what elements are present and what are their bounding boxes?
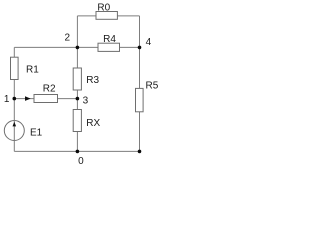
wire row node1-node3 (through R2): [14, 98, 77, 100]
node 3: [76, 97, 80, 101]
wire middle rail: [76, 16, 78, 152]
node 1: [13, 97, 17, 101]
wire top (node2 column to right rail, through R0): [77, 15, 139, 17]
resistor R0: [96, 12, 117, 20]
resistor R1: [11, 57, 19, 79]
svg-text:R1: R1: [26, 64, 39, 75]
svg-text:0: 0: [78, 156, 84, 167]
node 2: [76, 46, 80, 50]
wire row node2-node4 (left rail to right rail, through R4): [14, 46, 139, 48]
svg-text:R2: R2: [43, 84, 56, 95]
node 4: [138, 46, 142, 50]
arrow on wire node1-R2: [25, 96, 31, 101]
svg-text:3: 3: [83, 95, 89, 106]
junction bottom-right corner: [138, 150, 142, 154]
resistor R2: [34, 95, 58, 103]
svg-text:RX: RX: [86, 118, 100, 129]
svg-text:R5: R5: [146, 80, 159, 91]
svg-text:E1: E1: [30, 127, 43, 138]
source E1 (circle): [4, 121, 24, 141]
resistor R4: [98, 43, 120, 51]
svg-text:R4: R4: [103, 34, 116, 45]
wire right rail: [139, 16, 141, 152]
node 0: [76, 150, 80, 154]
wire left rail: [13, 47, 15, 151]
svg-text:1: 1: [4, 94, 10, 105]
resistor R5: [136, 88, 144, 111]
wire bottom (node 0 row): [14, 150, 139, 152]
svg-text:2: 2: [65, 32, 71, 43]
svg-text:R0: R0: [97, 3, 110, 14]
resistor R3: [73, 68, 81, 90]
svg-text:4: 4: [146, 37, 152, 48]
resistor RX: [73, 110, 81, 132]
svg-text:R3: R3: [86, 75, 99, 86]
